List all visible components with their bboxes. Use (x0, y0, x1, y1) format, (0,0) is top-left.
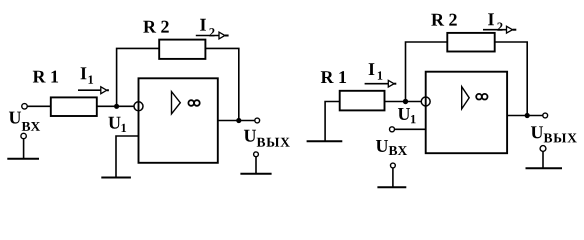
current arrow I2 (right circuit) (483, 29, 507, 31)
current arrow I1 (right circuit) (365, 83, 389, 85)
wire: output lower terminal to ground (right circuit) (542, 151, 544, 168)
terminal: input port lower terminal (left circuit) (21, 133, 26, 138)
wire: R1 to node U1 (right circuit) (385, 101, 422, 103)
node: output junction dot (left circuit) (236, 118, 241, 123)
label I1 current (left circuit) (81, 67, 87, 79)
wire: R2 to output riser down to output node (right circuit) (495, 42, 528, 116)
terminal: output port upper terminal (left circuit) (255, 118, 260, 123)
label R1 (left circuit) (33, 71, 58, 83)
label Uvyh output voltage (left circuit) (244, 130, 256, 142)
node U1 junction dot (right circuit) (403, 99, 408, 104)
label I1 current (right circuit) (369, 63, 375, 75)
wire: R1 left end to ground stem (right circuit) (325, 102, 340, 142)
wire: R2 to output riser down to output node (205, 48, 238, 120)
wire: input lower terminal to ground (right circuit) (392, 168, 394, 187)
terminal: input port lower terminal (right circuit) (391, 163, 396, 168)
resistor R1 (right circuit) (340, 91, 385, 111)
label R2 (right circuit) (431, 14, 456, 26)
wire: output lower terminal to ground (left circuit) (255, 157, 257, 174)
terminal: output port lower terminal (left circuit) (254, 152, 259, 157)
ground: input port (right circuit) (377, 186, 406, 188)
label Uvh input voltage (right circuit) (376, 140, 388, 152)
terminal: output port upper terminal (right circuit) (543, 113, 548, 118)
op-amp triangle symbol (left circuit) (172, 92, 181, 114)
op-amp U1 box (left circuit) (139, 78, 218, 163)
wire: R1 to node U1 (97, 105, 134, 107)
resistor R2 (right circuit) (447, 33, 494, 52)
ground: R1 left end (right circuit) (307, 140, 343, 142)
terminal: input port upper terminal (right circuit) (390, 127, 395, 132)
terminal: input port upper terminal (left circuit) (22, 104, 28, 110)
resistor R1 (left circuit) (51, 97, 97, 116)
label I2 current (right circuit) (488, 13, 494, 25)
wire: feedback riser from node U1 up and across to R2 (117, 48, 160, 106)
label R2 (left circuit) (143, 21, 168, 33)
resistor R2 (left circuit) (159, 40, 205, 59)
wire: op-amp output (left circuit) (218, 120, 255, 122)
op-amp inverting input bubble (right circuit) (421, 97, 430, 106)
label Uvh input voltage (left circuit) (9, 112, 21, 124)
current arrow I1 (left circuit) (78, 89, 101, 91)
ground: input port (left circuit) (7, 158, 39, 160)
label R1 (right circuit) (321, 71, 346, 83)
label I2 current (left circuit) (200, 19, 206, 31)
terminal: output port lower terminal (right circuit) (540, 146, 546, 152)
current arrow I2 (left circuit) (196, 35, 219, 37)
wire: non-inverting input to ground (left circuit) (116, 136, 139, 178)
ground: op-amp non-inverting input (left circuit) (101, 177, 131, 179)
ground: output port (left circuit) (240, 173, 271, 175)
wire: input terminal to R1 (27, 105, 50, 107)
label U1 (left circuit) (108, 117, 120, 129)
op-amp U2 box (right circuit) (426, 72, 507, 154)
op-amp infinity gain symbol (right circuit) (476, 94, 482, 100)
wire: feedback riser from node U1 up and across to R2 (right circuit) (406, 42, 448, 102)
ground: output port (right circuit) (526, 167, 563, 169)
op-amp infinity gain symbol (left circuit) (188, 100, 194, 106)
wire: input lower terminal to ground (left circuit) (23, 139, 25, 159)
wire: op-amp output (right circuit) (507, 115, 543, 117)
label U1 (right circuit) (398, 108, 410, 120)
op-amp inverting input bubble (left circuit) (134, 102, 143, 111)
node: output junction dot (right circuit) (525, 113, 530, 118)
label Uvyh output voltage (right circuit) (531, 126, 543, 138)
wire: input terminal to non-inverting input (right circuit) (395, 128, 426, 130)
op-amp triangle symbol (right circuit) (462, 87, 470, 109)
node U1 junction dot (left circuit) (114, 104, 119, 109)
